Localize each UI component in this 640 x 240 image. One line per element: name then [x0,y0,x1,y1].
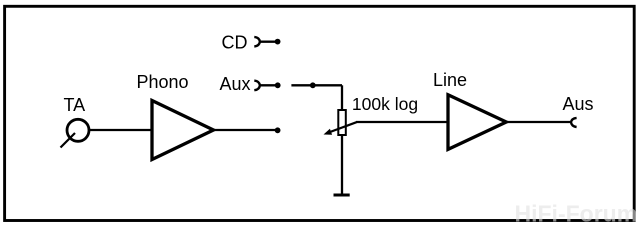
svg-text:Line: Line [433,70,467,90]
svg-text:HiFi-Forum: HiFi-Forum [515,201,638,227]
svg-text:Aus: Aus [563,94,594,114]
svg-text:Aux: Aux [220,74,251,94]
svg-text:TA: TA [64,95,86,115]
svg-text:Phono: Phono [137,72,189,92]
svg-text:100k log: 100k log [352,94,418,114]
svg-text:CD: CD [222,33,248,53]
